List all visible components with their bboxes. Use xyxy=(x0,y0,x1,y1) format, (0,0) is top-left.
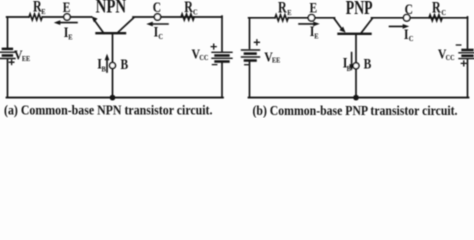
junction dot (left circuit base/rail) xyxy=(110,95,116,101)
resistor RE (left) zigzag xyxy=(29,14,42,20)
wire top rail collector side xyxy=(133,16,222,18)
node C (right) open circle xyxy=(403,14,410,21)
wire base lead (right circuit) xyxy=(355,34,357,98)
svg-text:(a) Common-base NPN transistor: (a) Common-base NPN transistor circuit. xyxy=(4,103,213,118)
current arrow IC (left, pointing left) xyxy=(152,23,169,25)
svg-text:E: E xyxy=(310,0,318,16)
resistor RC (right) zigzag xyxy=(429,15,442,21)
current arrow IB (left, pointing up) xyxy=(106,59,108,72)
wire top-left vertical (battery VEE top lead, right circuit) xyxy=(249,18,251,49)
svg-text:EE: EE xyxy=(22,56,30,63)
node B (right) open circle xyxy=(353,63,359,69)
transistor Q2 emitter lead with inward arrow (PNP) xyxy=(334,18,342,28)
label C (left) xyxy=(153,0,161,15)
svg-text:E: E xyxy=(68,33,73,42)
transistor Q2 collector lead xyxy=(361,18,373,34)
wire right edge top (VCC top lead) xyxy=(221,16,223,51)
wire top rail left segment (right circuit) xyxy=(249,17,275,19)
label VEE (left circuit) xyxy=(14,48,23,63)
transistor Q1 base bar xyxy=(97,32,126,34)
label B (right) xyxy=(364,55,372,72)
label E (right) xyxy=(310,0,318,16)
svg-text:NPN: NPN xyxy=(96,0,127,17)
wire bottom rail (left circuit) xyxy=(7,97,223,99)
svg-text:B: B xyxy=(121,55,129,72)
wire top rail left segment xyxy=(7,16,29,18)
label VCC (left circuit) xyxy=(192,47,201,62)
resistor RE (right) zigzag xyxy=(275,15,288,21)
wire top rail to emitter xyxy=(42,16,91,18)
minus sign VEE (right circuit) xyxy=(245,64,249,66)
svg-text:C: C xyxy=(409,35,414,44)
node E (right) open circle xyxy=(308,14,315,21)
transistor Q1 emitter lead with outward arrow (NPN) xyxy=(95,21,104,34)
current arrow IE (left, pointing left) xyxy=(59,22,77,24)
wire top rail to emitter (right circuit) xyxy=(288,17,334,19)
svg-text:PNP: PNP xyxy=(346,0,373,19)
minus sign VCC (right circuit) xyxy=(456,44,460,46)
minus sign VCC (left circuit) xyxy=(212,64,216,66)
svg-text:C: C xyxy=(193,8,198,17)
svg-text:EE: EE xyxy=(272,57,280,64)
label IE (left) xyxy=(64,24,69,41)
label RC (right) xyxy=(432,0,441,17)
node E (left) open circle xyxy=(64,14,70,20)
transistor Q2 base bar xyxy=(339,33,371,35)
label RE (left) xyxy=(33,0,42,16)
label E (left) xyxy=(63,0,71,16)
junction dot (right circuit base/rail) xyxy=(353,95,359,101)
svg-text:R: R xyxy=(278,0,287,17)
plus sign VCC (left circuit) xyxy=(211,44,216,49)
svg-text:C: C xyxy=(153,0,161,15)
label IC (right) xyxy=(404,26,409,43)
label NPN xyxy=(96,0,127,17)
wire right edge bottom (right circuit) xyxy=(467,60,469,98)
svg-text:C: C xyxy=(405,1,413,18)
svg-text:C: C xyxy=(158,32,163,41)
label IB (left) xyxy=(97,55,102,72)
wire top rail collector side (right circuit) xyxy=(372,17,468,19)
battery VEE (right circuit) plates xyxy=(242,49,260,51)
battery VCC (left circuit) plates xyxy=(212,51,232,53)
label VCC (right circuit) xyxy=(438,47,447,62)
label IC (left) xyxy=(154,23,159,40)
wire base lead xyxy=(112,33,114,97)
wire right edge top (right circuit) xyxy=(467,17,469,49)
label C (right) xyxy=(405,1,413,18)
current arrow IE (right, pointing right) xyxy=(299,23,315,25)
current arrow IC (right, pointing right) xyxy=(390,25,405,27)
svg-text:CC: CC xyxy=(446,55,455,62)
label PNP xyxy=(346,0,373,19)
current arrow IB (right, pointing down) xyxy=(351,53,353,66)
transistor Q1 collector lead xyxy=(117,17,134,33)
label IE (right) xyxy=(310,23,315,40)
svg-text:R: R xyxy=(432,0,441,17)
svg-text:(b) Common-base PNP transistor: (b) Common-base PNP transistor circuit. xyxy=(253,103,458,118)
node B (left) open circle xyxy=(110,63,116,69)
node C (left) open circle xyxy=(154,14,160,20)
svg-text:B: B xyxy=(347,64,352,73)
svg-text:E: E xyxy=(314,32,319,41)
svg-text:E: E xyxy=(287,8,292,17)
plus sign VCC (right circuit) xyxy=(461,61,466,66)
wire left edge bottom (right circuit) xyxy=(249,62,251,98)
svg-text:C: C xyxy=(441,8,446,17)
label VEE (right circuit) xyxy=(264,50,273,65)
wire top-left vertical (battery VEE top lead) xyxy=(7,17,9,47)
label IB (right) xyxy=(343,54,348,71)
wire bottom rail (right circuit) xyxy=(249,97,469,99)
svg-text:B: B xyxy=(364,55,372,72)
resistor RC (left) zigzag xyxy=(181,14,194,20)
wire right edge bottom xyxy=(221,63,223,98)
wire left edge bottom xyxy=(7,59,9,97)
battery VEE (left circuit) plates xyxy=(3,48,12,51)
plus sign VEE (right circuit) xyxy=(254,40,259,45)
svg-text:E: E xyxy=(63,0,71,16)
svg-text:B: B xyxy=(102,65,107,74)
battery VCC (right circuit) plates xyxy=(463,49,473,52)
label B (left) xyxy=(121,55,129,72)
label RC (left) xyxy=(184,0,193,16)
svg-text:E: E xyxy=(41,8,46,17)
plus sign VEE (left circuit) xyxy=(9,60,14,65)
svg-text:CC: CC xyxy=(199,55,208,62)
label RE (right) xyxy=(278,0,287,17)
